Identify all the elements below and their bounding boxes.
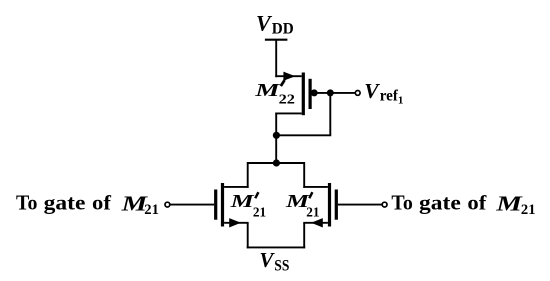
- svg-text:21: 21: [144, 202, 159, 218]
- svg-text:of: of: [92, 191, 112, 215]
- label To gate of M21 (right): [391, 191, 535, 218]
- right M21' channel bar: [328, 183, 331, 227]
- wire left M21' gate lead: [171, 204, 215, 206]
- wire left M21' source vertical: [247, 223, 249, 249]
- transistor M21' left (NMOS, gate on left side): [214, 183, 249, 228]
- wire top rail of M21' pair: [248, 162, 305, 164]
- svg-text:To: To: [16, 191, 37, 215]
- net label Vref1: [364, 79, 403, 107]
- M22' gate bar: [309, 79, 312, 109]
- wire VDD bar to M22' source lead: [275, 40, 277, 77]
- right M21' source lead (bottom): [303, 222, 328, 224]
- svg-text:To: To: [391, 191, 412, 215]
- svg-text:SS: SS: [274, 257, 289, 274]
- junction dot (M22' drain / feedback): [273, 132, 280, 139]
- wire left M21' drain vertical: [247, 162, 249, 188]
- svg-text:gate: gate: [44, 191, 86, 215]
- net label VDD: [256, 10, 294, 37]
- svg-text:V: V: [364, 79, 380, 103]
- left M21' channel bar: [221, 183, 224, 227]
- right M21' gate bar: [335, 190, 338, 220]
- wire right M21' drain vertical: [303, 162, 305, 188]
- wire right M21' gate lead: [338, 204, 382, 206]
- svg-text:21: 21: [306, 206, 319, 221]
- transistor M22' (PMOS, gate on right side): [275, 72, 311, 116]
- svg-text:ref: ref: [380, 87, 399, 104]
- power symbol VDD (supply bar): [265, 39, 288, 41]
- svg-text:V: V: [259, 248, 275, 272]
- terminal right gate (open circle): [382, 202, 387, 207]
- label M21' left: [229, 191, 266, 220]
- right M21' source arrow: [311, 218, 323, 227]
- left M21' gate bar: [214, 190, 217, 220]
- terminal left gate (open circle): [165, 202, 170, 207]
- right M21' drain lead (top): [303, 186, 328, 188]
- transistor M21' right (NMOS, gate on right side, mirrored): [303, 183, 338, 228]
- wire M22' drain down to node: [275, 113, 277, 164]
- net label VSS: [259, 248, 289, 274]
- wire bottom rail VSS: [247, 246, 306, 248]
- label M22': [254, 79, 295, 107]
- junction dot at M22' gate: [311, 89, 318, 96]
- svg-text:gate: gate: [419, 191, 461, 215]
- svg-text:M: M: [254, 80, 280, 100]
- junction dot center of top rail: [273, 159, 280, 166]
- M22' source arrow: [283, 72, 295, 81]
- svg-text:M: M: [229, 191, 254, 211]
- left M21' drain lead (top): [224, 186, 249, 188]
- M22' channel bar: [302, 73, 305, 116]
- svg-text:1: 1: [398, 95, 404, 107]
- svg-text:of: of: [467, 191, 487, 215]
- wire M22' gate to Vref1 terminal: [312, 92, 355, 94]
- label To gate of M21 (left): [16, 191, 159, 218]
- terminal Vref1 (open circle): [355, 91, 360, 96]
- wire right M21' source vertical: [303, 223, 305, 249]
- left M21' source lead (bottom): [224, 222, 249, 224]
- label M21' right: [285, 191, 320, 220]
- M22' source lead (top): [275, 75, 301, 77]
- svg-text:M: M: [495, 191, 523, 215]
- svg-text:DD: DD: [272, 20, 294, 37]
- svg-text:22: 22: [279, 93, 295, 108]
- wire feedback from Vref node down and left to drain node: [276, 93, 330, 135]
- left M21' source arrow: [229, 218, 241, 227]
- svg-text:21: 21: [521, 202, 536, 218]
- M22' drain lead (bottom): [275, 112, 301, 114]
- svg-text:V: V: [256, 10, 273, 35]
- svg-text:21: 21: [253, 206, 266, 221]
- junction dot gate/feedback: [327, 89, 334, 96]
